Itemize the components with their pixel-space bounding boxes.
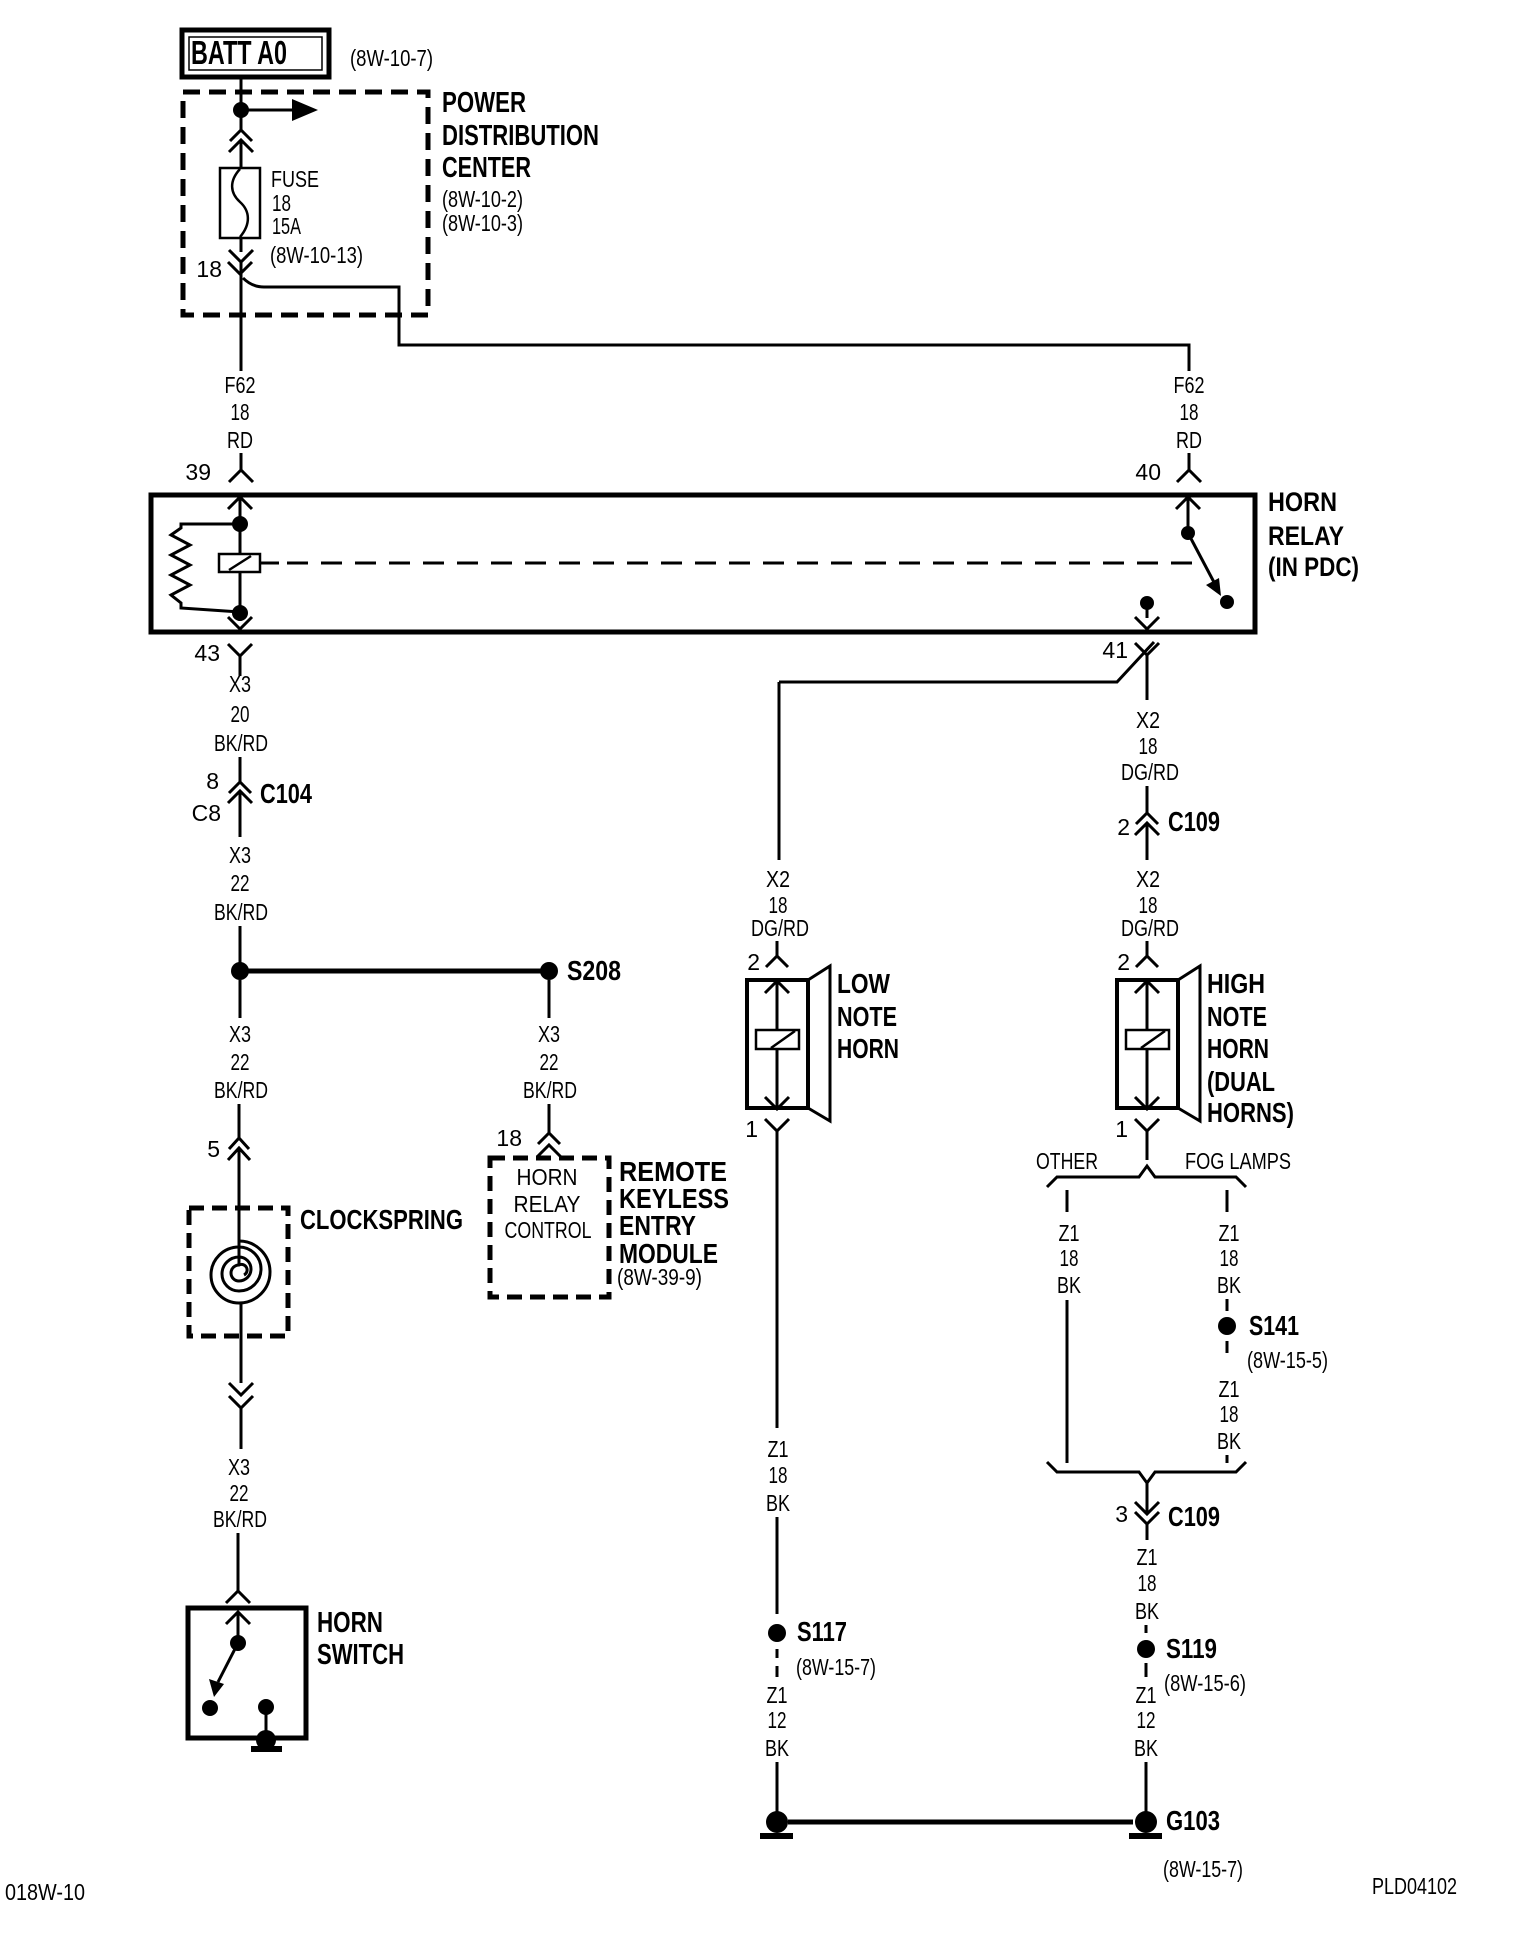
horn switch common dot	[230, 1635, 246, 1651]
high horn pin 1 connector	[1135, 1119, 1159, 1160]
svg-text:F62: F62	[1174, 372, 1205, 398]
svg-text:018W-10: 018W-10	[5, 1879, 85, 1905]
connector C104	[228, 782, 252, 837]
svg-text:BK/RD: BK/RD	[214, 730, 268, 756]
svg-text:(8W-10-3): (8W-10-3)	[442, 210, 523, 236]
svg-text:BK/RD: BK/RD	[214, 899, 268, 925]
wire fuse output left drop	[240, 262, 243, 371]
svg-text:BK: BK	[1134, 1735, 1159, 1761]
wire S208 drop	[548, 980, 551, 1018]
wire fog branch dash	[1226, 1299, 1229, 1311]
svg-text:CENTER: CENTER	[442, 152, 531, 184]
svg-text:(8W-10-7): (8W-10-7)	[350, 45, 433, 71]
wire clockspring output	[240, 1303, 243, 1383]
wire dash below S119	[1145, 1663, 1148, 1677]
net label X3 22 BK/RD left mid	[214, 1021, 268, 1103]
svg-text:(8W-15-5): (8W-15-5)	[1247, 1347, 1328, 1373]
svg-text:(8W-10-13): (8W-10-13)	[270, 242, 363, 268]
connector 5 clockspring input	[228, 1138, 250, 1266]
splice S119 dot	[1137, 1640, 1155, 1658]
svg-text:(DUAL: (DUAL	[1207, 1066, 1275, 1097]
svg-text:2: 2	[747, 949, 760, 975]
svg-text:S141: S141	[1249, 1310, 1299, 1341]
svg-text:RELAY: RELAY	[1268, 521, 1344, 551]
wire fog lamps branch stub	[1226, 1190, 1229, 1212]
svg-text:18: 18	[1139, 733, 1158, 759]
svg-text:Z1: Z1	[1137, 1544, 1158, 1570]
svg-text:39: 39	[185, 459, 211, 485]
splice S141 dot	[1218, 1317, 1236, 1335]
horn switch pin connector	[226, 1591, 250, 1638]
net label X2 18 DG/RD low horn	[751, 866, 809, 941]
net label X2 18 DG/RD high horn	[1121, 866, 1179, 941]
splice S208 dot	[540, 962, 558, 980]
svg-text:Z1: Z1	[1059, 1220, 1080, 1246]
svg-text:S117: S117	[797, 1616, 847, 1647]
connector fuse input	[229, 130, 253, 168]
svg-text:8: 8	[206, 768, 219, 794]
low note horn name	[837, 968, 899, 1064]
svg-text:RELAY: RELAY	[514, 1191, 581, 1217]
net label X3 22 BK/RD S208 branch	[523, 1021, 577, 1103]
connector clockspring output	[229, 1383, 253, 1449]
svg-text:G103: G103	[1166, 1805, 1220, 1836]
relay coil feed wire	[239, 517, 242, 613]
svg-text:X2: X2	[766, 866, 790, 892]
low horn internal lower wire	[765, 1049, 789, 1109]
wire dash above S119	[1145, 1625, 1148, 1633]
svg-text:18: 18	[1060, 1245, 1079, 1271]
svg-text:S208: S208	[567, 955, 621, 986]
svg-text:DG/RD: DG/RD	[1121, 915, 1179, 941]
svg-text:40: 40	[1135, 459, 1161, 485]
svg-text:X2: X2	[1136, 707, 1160, 733]
relay output contact dot	[1140, 596, 1154, 610]
svg-text:15A: 15A	[272, 213, 301, 239]
svg-text:(8W-15-6): (8W-15-6)	[1164, 1670, 1246, 1696]
svg-text:C109: C109	[1168, 1501, 1220, 1532]
svg-text:Z1: Z1	[1219, 1220, 1240, 1246]
low horn pin 2 connector	[765, 941, 789, 1030]
relay control dashed link	[260, 562, 1200, 565]
joiner bracket lower	[1047, 1462, 1246, 1483]
svg-text:43: 43	[194, 640, 220, 666]
high horn pin 2 connector	[1135, 941, 1159, 1030]
clockspring box	[189, 1204, 463, 1336]
svg-text:BK: BK	[766, 1490, 791, 1516]
svg-text:C104: C104	[260, 778, 312, 809]
horn switch box	[188, 1608, 306, 1738]
svg-text:DG/RD: DG/RD	[751, 915, 809, 941]
arrow other-circuits feed	[241, 99, 318, 121]
svg-text:DG/RD: DG/RD	[1121, 759, 1179, 785]
wire splice bus to S208	[248, 969, 541, 974]
svg-text:NOTE: NOTE	[837, 1001, 897, 1032]
net label X3 22 BK/RD upper	[214, 842, 268, 925]
net label Z1 12 BK low horn	[765, 1682, 790, 1761]
svg-text:12: 12	[768, 1707, 787, 1733]
wire other branch stub	[1066, 1190, 1069, 1212]
pin 18 connector RKE	[537, 1133, 561, 1157]
svg-text:18: 18	[196, 256, 222, 282]
net label X2 18 DG/RD relay out	[1121, 707, 1179, 785]
svg-text:(8W-39-9): (8W-39-9)	[617, 1264, 702, 1290]
remote keyless entry module box	[490, 1158, 609, 1297]
high horn internal lower wire	[1135, 1049, 1159, 1109]
svg-text:BK: BK	[1217, 1428, 1242, 1454]
svg-text:X3: X3	[228, 1454, 250, 1480]
relay switch arm with arrowhead	[1188, 533, 1234, 609]
relay switch common dot	[1181, 526, 1195, 540]
svg-text:22: 22	[231, 870, 250, 896]
svg-text:POWER: POWER	[442, 87, 526, 119]
svg-text:(IN PDC): (IN PDC)	[1268, 552, 1359, 582]
high note horn body	[1117, 966, 1200, 1121]
svg-text:Z1: Z1	[1136, 1682, 1157, 1708]
svg-text:X3: X3	[538, 1021, 560, 1047]
wire above splice junction	[239, 926, 242, 963]
high note horn name	[1207, 968, 1294, 1128]
svg-text:DISTRIBUTION: DISTRIBUTION	[442, 120, 599, 152]
svg-text:HORNS): HORNS)	[1207, 1097, 1294, 1128]
splice S117 dot	[768, 1624, 786, 1642]
svg-text:BK: BK	[765, 1735, 790, 1761]
horn relay box	[151, 495, 1255, 632]
module name REMOTE KEYLESS ENTRY MODULE	[617, 1156, 729, 1290]
svg-text:41: 41	[1102, 637, 1128, 663]
relay coil bottom junction	[232, 605, 248, 621]
net label Z1 18 BK below C109	[1135, 1544, 1160, 1624]
fuse 18 15A	[220, 168, 260, 238]
high note horn coil	[1126, 1030, 1169, 1049]
wire to RKE module	[548, 1104, 551, 1133]
svg-text:F62: F62	[225, 372, 256, 398]
svg-text:OTHER: OTHER	[1036, 1148, 1098, 1174]
power distribution center enclosure	[183, 87, 599, 315]
wire fog branch dash2	[1226, 1341, 1229, 1353]
horn relay name label	[1268, 487, 1359, 582]
svg-text:S119: S119	[1166, 1633, 1217, 1664]
svg-text:18: 18	[1220, 1401, 1239, 1427]
svg-text:C109: C109	[1168, 806, 1220, 837]
svg-text:(8W-10-2): (8W-10-2)	[442, 186, 523, 212]
connector fuse output	[228, 238, 253, 274]
svg-text:18: 18	[1220, 1245, 1239, 1271]
svg-text:X3: X3	[229, 1021, 251, 1047]
svg-text:Z1: Z1	[768, 1436, 789, 1462]
horn switch name	[317, 1607, 404, 1671]
svg-text:HORN: HORN	[837, 1033, 899, 1064]
svg-text:18: 18	[231, 399, 250, 425]
svg-text:HORN: HORN	[1268, 487, 1337, 517]
wire dash below S117	[776, 1649, 779, 1677]
wire above clockspring connector	[238, 1104, 241, 1138]
svg-text:X3: X3	[229, 842, 251, 868]
relay coil top junction	[232, 516, 248, 532]
svg-text:2: 2	[1117, 814, 1130, 840]
pin 41 connector	[1135, 609, 1159, 700]
svg-text:PLD04102: PLD04102	[1372, 1873, 1457, 1899]
wire battery feed	[240, 77, 243, 130]
svg-text:22: 22	[231, 1049, 250, 1075]
wire to left ground	[776, 1762, 779, 1812]
ground symbol horn switch	[251, 1730, 282, 1752]
svg-text:BK/RD: BK/RD	[214, 1077, 268, 1103]
low horn pin 1 connector	[765, 1119, 789, 1147]
horn switch ground contact dot	[258, 1699, 274, 1715]
horn switch contact dot	[202, 1700, 218, 1716]
svg-text:18: 18	[769, 1462, 788, 1488]
svg-text:HORN: HORN	[517, 1164, 578, 1190]
svg-text:FUSE: FUSE	[271, 166, 319, 192]
svg-text:X2: X2	[1136, 866, 1160, 892]
svg-text:2: 2	[1117, 949, 1130, 975]
svg-text:5: 5	[207, 1136, 220, 1162]
svg-text:ENTRY: ENTRY	[619, 1210, 696, 1241]
svg-text:Z1: Z1	[767, 1682, 788, 1708]
ground symbol left	[760, 1811, 793, 1839]
svg-text:X3: X3	[229, 671, 251, 697]
svg-text:(8W-15-7): (8W-15-7)	[796, 1654, 876, 1680]
svg-text:BK: BK	[1057, 1272, 1082, 1298]
pin 39 connector	[228, 453, 253, 519]
splice junction dot	[231, 962, 249, 980]
svg-text:18: 18	[1138, 1570, 1157, 1596]
pin 43 connector	[228, 613, 252, 676]
svg-text:RD: RD	[1176, 427, 1202, 453]
svg-text:BK: BK	[1135, 1598, 1160, 1624]
wire branch diagonal to low note horn	[779, 642, 1154, 682]
net label Z1 18 BK fog lower	[1217, 1376, 1242, 1454]
svg-text:BATT A0: BATT A0	[191, 34, 287, 71]
svg-text:HORN: HORN	[317, 1607, 383, 1639]
svg-text:22: 22	[230, 1480, 249, 1506]
svg-text:RD: RD	[227, 427, 253, 453]
wire above C109 pin2	[1146, 786, 1149, 813]
net label Z1 12 BK right	[1134, 1682, 1159, 1761]
svg-text:22: 22	[540, 1049, 559, 1075]
horn switch arm with arrowhead	[209, 1643, 238, 1697]
wire to horn switch	[237, 1533, 240, 1592]
wire other branch	[1066, 1300, 1069, 1463]
splitter bracket upper	[1047, 1166, 1246, 1187]
ground symbol G103	[1129, 1811, 1162, 1839]
battery node box BATT A0	[182, 30, 329, 77]
svg-text:(8W-15-7): (8W-15-7)	[1163, 1856, 1243, 1882]
svg-text:3: 3	[1115, 1501, 1128, 1527]
svg-text:CLOCKSPRING: CLOCKSPRING	[300, 1204, 463, 1235]
wire above C104	[239, 757, 242, 782]
clockspring spiral	[211, 1241, 270, 1303]
connector C109 pin 3	[1135, 1483, 1159, 1540]
net label F62 18 RD left	[225, 372, 256, 453]
svg-text:HIGH: HIGH	[1207, 968, 1265, 999]
junction node A0	[233, 102, 249, 118]
svg-text:C8: C8	[192, 800, 221, 826]
svg-text:CONTROL: CONTROL	[505, 1217, 592, 1243]
svg-text:12: 12	[1137, 1707, 1156, 1733]
net label Z1 18 BK fog branch	[1217, 1220, 1242, 1298]
svg-text:FOG LAMPS: FOG LAMPS	[1185, 1148, 1291, 1174]
fuse value label	[270, 166, 363, 268]
svg-text:1: 1	[745, 1116, 758, 1142]
wire to ground G103	[1145, 1762, 1148, 1812]
net label Z1 18 BK low horn	[766, 1436, 791, 1516]
net label F62 18 RD right	[1174, 372, 1205, 453]
wire ground bus	[788, 1820, 1133, 1825]
svg-text:BK: BK	[1217, 1272, 1242, 1298]
wire left chain below splice	[239, 980, 242, 1018]
svg-text:20: 20	[231, 701, 250, 727]
connector C109 pin 2	[1135, 813, 1159, 860]
svg-text:SWITCH: SWITCH	[317, 1639, 404, 1671]
net label Z1 18 BK other branch	[1057, 1220, 1082, 1298]
svg-text:18: 18	[1180, 399, 1199, 425]
relay suppression resistor	[171, 524, 240, 612]
wire jog to right feed	[243, 278, 1189, 371]
pin 40 connector	[1176, 453, 1201, 528]
svg-text:BK/RD: BK/RD	[523, 1077, 577, 1103]
svg-text:18: 18	[496, 1125, 522, 1151]
low note horn coil	[756, 1030, 799, 1049]
wire fog branch dash3	[1226, 1455, 1229, 1463]
net label X3 22 BK/RD lower	[213, 1454, 267, 1532]
svg-text:Z1: Z1	[1219, 1376, 1240, 1402]
wire low horn drop upper	[778, 682, 781, 860]
net label X3 20 BK/RD	[214, 671, 268, 756]
low note horn body	[747, 966, 830, 1121]
svg-text:LOW: LOW	[837, 968, 890, 999]
svg-text:1: 1	[1115, 1116, 1128, 1142]
relay coil	[219, 554, 260, 572]
svg-text:NOTE: NOTE	[1207, 1001, 1267, 1032]
wire low horn ground run	[776, 1147, 779, 1428]
svg-text:BK/RD: BK/RD	[213, 1506, 267, 1532]
wire to switch ground	[265, 1707, 268, 1734]
wire above S117	[776, 1517, 779, 1614]
svg-text:HORN: HORN	[1207, 1033, 1269, 1064]
